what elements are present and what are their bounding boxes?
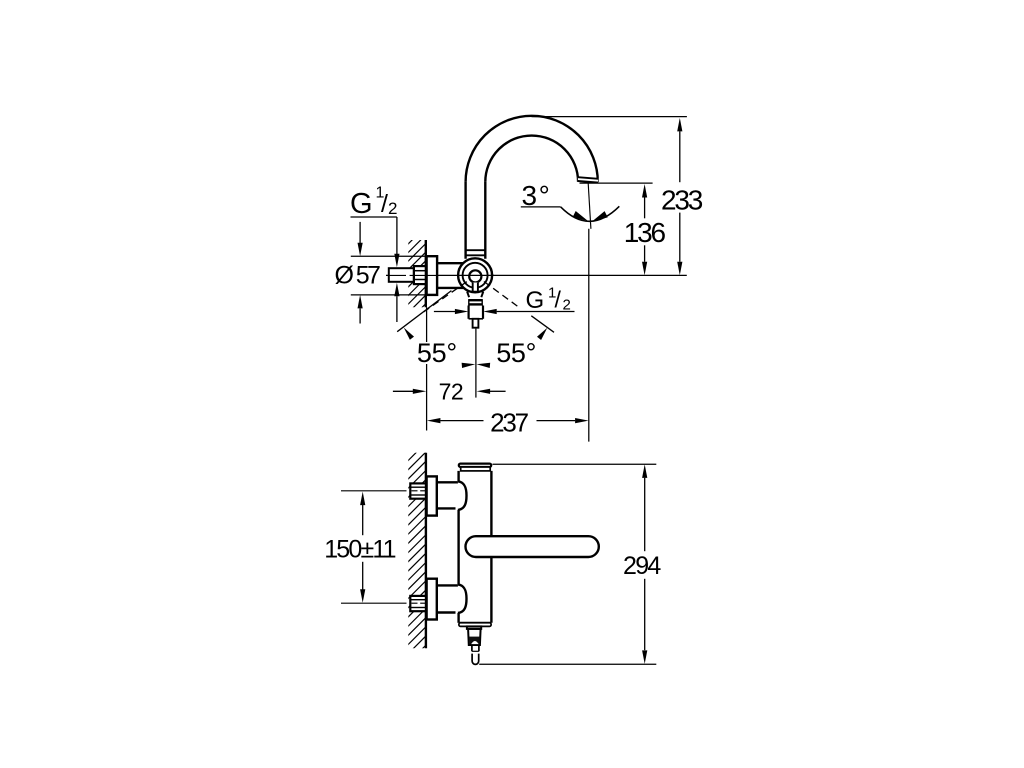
wall surface extension line [426,307,428,342]
svg-text:55°: 55° [417,338,457,368]
upper inlet centerline [341,490,407,492]
dim 3deg: arc with arrows [561,206,620,221]
lower escutcheon [427,579,437,620]
aerator retainer ring [467,626,481,629]
lower inlet centerline [341,602,407,604]
dim 3deg: leader line [521,206,561,208]
G 1/2 outlet tube [468,306,470,319]
wall hatching (top view) [408,217,427,322]
dim 294: top extension line [493,463,657,465]
lower union arm [437,584,458,586]
svg-text:233: 233 [661,184,703,215]
svg-text:55°: 55° [496,338,536,368]
svg-text:72: 72 [439,378,464,404]
lever handle [466,536,599,557]
55 deg swivel dashed ray left [424,282,467,312]
3deg tilted outlet axis line [588,183,591,228]
55 deg swivel dashed ray right [484,282,519,308]
dim G1/2 outlet: dimension line and arrows [434,311,455,313]
body bottom lip [459,623,491,627]
wall flange escutcheon (O57) [427,256,438,295]
dim 150+-11: vertical line with arrows [360,492,365,506]
upper inlet hex nut [410,483,426,498]
outlet flare collar [467,292,469,298]
mousseur outlet piece [468,629,481,645]
G 1/2 threaded inlet pipe [389,268,414,282]
outlet threaded rings [469,299,482,301]
lower ball joint bulge [458,584,467,613]
svg-text:/: / [555,287,562,313]
spout C-arc inner [485,136,578,182]
svg-text:136: 136 [624,217,666,248]
centerline overlay through pivot [457,274,494,276]
upper ball joint bulge [458,481,467,510]
spout outlet tip (3 deg face) [578,177,598,184]
wall line (front view) [425,453,427,648]
dim 55 left: tangent arrow [404,328,414,340]
outlet stem below pivot [473,283,478,292]
dim O57: extension lines [351,255,426,257]
body top cap [459,464,491,467]
svg-text:237: 237 [490,408,529,438]
dim 55: center arrow pair on vertical line [462,363,476,368]
centerline overlay over inlet pipe and flange [390,274,407,276]
dim 237: line with arrows [427,418,441,423]
outlet nipple [473,319,479,328]
lower hex centerline overlay [412,602,418,604]
riser collar joint [466,249,486,251]
mixer body cylinder [457,471,459,481]
spout riser tube [464,182,466,259]
svg-text:G: G [350,188,373,220]
pivot joint middle ring [463,263,488,288]
svg-text:G: G [526,287,545,314]
pivot joint outer circle [458,258,492,292]
horizontal arm from flange to pivot [437,262,465,264]
dim 55 right: tangent arrow [537,328,547,340]
wall line (top view) [425,240,427,307]
svg-text:294: 294 [623,552,661,580]
dim G1/2 top-left: leader and arrows [351,216,397,218]
dim 55 left: solid leg [397,291,451,332]
svg-text:2: 2 [388,199,397,218]
dim O57: arrows [359,222,361,243]
dim 72: line and arrows [393,390,413,392]
upper hex centerline overlay [412,490,418,492]
upper escutcheon [427,476,437,515]
horizontal centerline through pivot [386,274,406,276]
dim 233: vertical line with arrows [677,118,682,131]
dim 294: vertical line with arrows [642,464,647,478]
wall hatching (front view) [408,433,427,664]
body bottom edge [459,622,492,624]
pivot hub circle [469,270,481,282]
svg-text:3°: 3° [522,180,552,211]
outlet vertical extension line [588,229,590,442]
svg-text:/: / [381,190,388,218]
dim 136: top extension line at outlet [580,182,653,184]
dim 136: vertical line with arrows [642,184,647,198]
spout C-arc outer [466,116,598,182]
dim 55 right: solid leg [531,316,554,333]
svg-text:Ø 57: Ø 57 [335,262,380,290]
dim 233: top extension line [532,116,687,118]
svg-text:150±11: 150±11 [324,536,395,564]
upper union arm [437,481,458,483]
inlet hex nut [414,266,426,284]
lower inlet hex nut [410,596,426,611]
bottom reference line at outlet [479,663,656,665]
vertical centerline below outlet [475,329,477,398]
outlet spout tube [471,646,473,651]
